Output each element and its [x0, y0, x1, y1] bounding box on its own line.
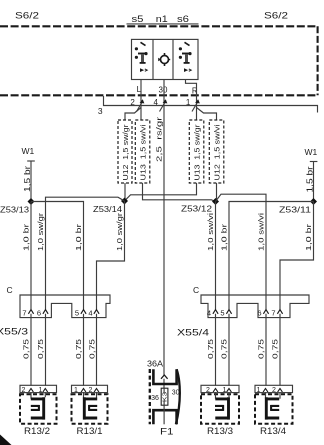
- control unit S6/2 bottom dashed edge: [0, 94, 318, 96]
- wire U13-right to Z53/14: [125, 183, 197, 201]
- svg-text:K3: K3: [163, 392, 169, 402]
- svg-text:F1: F1: [160, 427, 174, 438]
- svg-text:5: 5: [75, 309, 79, 318]
- wire pin1 branch to U12 right: [197, 108, 217, 121]
- svg-text:R13/4: R13/4: [260, 426, 286, 437]
- svg-text:1,0 sw/vi: 1,0 sw/vi: [257, 213, 266, 251]
- svg-text:1,5 br: 1,5 br: [305, 166, 314, 192]
- lamp R13/4: [255, 385, 293, 437]
- node Z53/11: [310, 198, 317, 205]
- svg-text:0,75: 0,75: [271, 339, 280, 359]
- svg-text:1: 1: [39, 387, 43, 394]
- wire code box U12 right: [209, 120, 224, 183]
- svg-text:U12 1,5 sw/gr: U12 1,5 sw/gr: [121, 124, 130, 181]
- svg-text:R13/3: R13/3: [207, 426, 233, 437]
- svg-text:6: 6: [37, 309, 41, 318]
- wire U12-right down to Z53/12: [216, 183, 218, 202]
- lamp R13/2: [20, 385, 57, 437]
- svg-text:1,0 sw/gr: 1,0 sw/gr: [115, 212, 124, 251]
- wire Z53/14 down jog pin4: [97, 201, 125, 386]
- svg-text:R13/1: R13/1: [77, 426, 103, 437]
- wire code box U13 left: [135, 120, 150, 183]
- svg-text:1,0 br: 1,0 br: [74, 223, 83, 251]
- svg-text:Z53/12: Z53/12: [181, 204, 212, 214]
- fuse F1: [147, 359, 180, 438]
- svg-text:U13 1,5 sw/gr: U13 1,5 sw/gr: [192, 124, 201, 181]
- svg-text:6: 6: [257, 309, 261, 318]
- wire pin R elbow down: [186, 80, 197, 121]
- lamp R13/3: [201, 385, 239, 437]
- svg-text:0,75: 0,75: [88, 339, 97, 359]
- svg-text:W1: W1: [22, 146, 35, 156]
- svg-text:7: 7: [22, 309, 26, 318]
- svg-text:1,0 br: 1,0 br: [22, 223, 31, 251]
- wire pin2 branch to U12: [125, 108, 141, 121]
- svg-text:4: 4: [207, 309, 211, 318]
- svg-text:4: 4: [154, 98, 159, 107]
- wire sw/gr rail to pin6: [46, 197, 125, 386]
- svg-text:R13/2: R13/2: [24, 426, 50, 437]
- wire Z53/13 down pin7: [30, 202, 32, 386]
- svg-text:0,75: 0,75: [36, 339, 45, 359]
- svg-text:X55/3: X55/3: [0, 327, 28, 338]
- svg-text:2: 2: [206, 387, 210, 394]
- wire U12-left down to Z53/14: [124, 183, 126, 201]
- svg-text:4: 4: [88, 309, 92, 318]
- control unit S6/2 right dashed edge: [317, 26, 319, 95]
- wire br rail left: [31, 202, 84, 386]
- svg-text:1: 1: [186, 98, 191, 107]
- svg-text:1,5 br: 1,5 br: [23, 166, 32, 192]
- svg-text:U13 1,5 sw/vi: U13 1,5 sw/vi: [138, 124, 147, 180]
- svg-text:X55/4: X55/4: [177, 328, 209, 339]
- svg-text:1,0 br: 1,0 br: [220, 223, 229, 251]
- svg-text:2: 2: [130, 98, 135, 107]
- wire br rail right to pin5: [229, 202, 314, 386]
- svg-text:7: 7: [271, 309, 275, 318]
- node Z53/13: [28, 198, 35, 205]
- thin line under switch labels: [127, 23, 199, 25]
- svg-text:U12 1,5 sw/vi: U12 1,5 sw/vi: [212, 124, 221, 180]
- svg-text:0,75: 0,75: [220, 339, 229, 359]
- svg-text:C: C: [193, 285, 199, 295]
- connector X55/3: [20, 295, 110, 318]
- svg-text:n1: n1: [156, 14, 168, 25]
- control unit S6/2 top dashed edge: [0, 25, 318, 27]
- svg-text:Z53/11: Z53/11: [279, 205, 311, 215]
- svg-text:s6: s6: [177, 14, 189, 25]
- svg-text:Z53/14: Z53/14: [93, 204, 122, 214]
- wire code box U12 left: [118, 120, 132, 183]
- pin 4 arrow: [160, 99, 168, 111]
- svg-text:2: 2: [272, 387, 276, 394]
- wire Z53/12 down pin4 right: [215, 202, 217, 386]
- svg-text:36A: 36A: [147, 359, 163, 369]
- wire code box U13 right: [189, 120, 204, 183]
- wire U13-left to Z53/12: [143, 183, 216, 202]
- svg-text:30: 30: [172, 390, 180, 397]
- wire Z53/11 down jog pin7 right: [280, 202, 314, 386]
- svg-text:5: 5: [220, 309, 224, 318]
- node Z53/12: [212, 198, 219, 205]
- switch unit box: [132, 39, 199, 79]
- svg-text:1,0 sw/vi: 1,0 sw/vi: [206, 213, 215, 251]
- svg-text:1: 1: [223, 387, 227, 394]
- svg-text:0,75: 0,75: [74, 339, 83, 359]
- svg-text:Z53/13: Z53/13: [0, 205, 29, 215]
- svg-text:2,5 rs/gr: 2,5 rs/gr: [155, 116, 164, 162]
- node Z53/14: [121, 198, 128, 205]
- pin 1 arrow: [192, 99, 200, 111]
- svg-text:1,0 br: 1,0 br: [304, 223, 313, 251]
- svg-text:2: 2: [22, 387, 26, 394]
- svg-text:S6/2: S6/2: [264, 11, 288, 22]
- svg-text:0,75: 0,75: [22, 339, 31, 359]
- pin 2 arrow: [137, 99, 145, 111]
- hazard lamp symbol n1 (middle cell): [158, 53, 170, 66]
- svg-text:1: 1: [257, 387, 261, 394]
- svg-text:1: 1: [74, 387, 78, 394]
- svg-text:0,75: 0,75: [257, 339, 266, 359]
- svg-text:2: 2: [89, 387, 93, 394]
- wire pin L down: [140, 80, 142, 121]
- svg-text:1,0 sw/gr: 1,0 sw/gr: [36, 212, 45, 251]
- svg-text:36: 36: [151, 395, 159, 402]
- svg-text:s5: s5: [132, 14, 144, 25]
- wire pin 30 down to fuse: [163, 80, 165, 393]
- lamp R13/1: [72, 385, 108, 437]
- svg-text:0,75: 0,75: [206, 339, 215, 359]
- svg-text:30: 30: [159, 86, 168, 95]
- switch symbol s6 (right cell): [179, 42, 192, 72]
- svg-text:W1: W1: [305, 147, 318, 157]
- switch symbol s5 (left cell): [135, 42, 148, 72]
- svg-text:C: C: [7, 285, 13, 295]
- connector bus line with pin 3: [104, 96, 318, 113]
- page corner mark: [0, 435, 12, 445]
- svg-text:S6/2: S6/2: [15, 11, 39, 22]
- connector X55/4: [201, 295, 309, 318]
- wire sw/vi branch to pin6 right: [216, 194, 267, 386]
- svg-text:3: 3: [98, 106, 103, 116]
